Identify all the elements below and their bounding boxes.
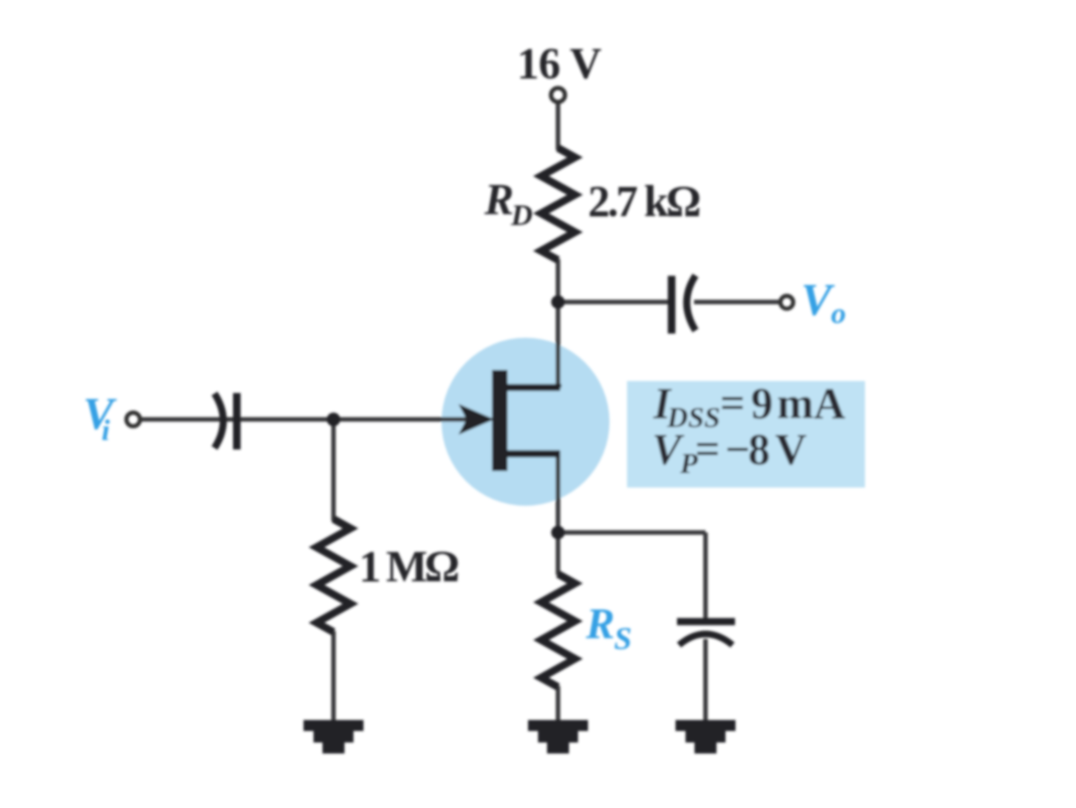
svg-text:9: 9 — [751, 379, 773, 428]
svg-text:V: V — [83, 388, 117, 439]
svg-text:R: R — [484, 175, 514, 224]
svg-text:2.7 kΩ: 2.7 kΩ — [588, 177, 700, 226]
svg-text:S: S — [614, 620, 632, 656]
svg-text:i: i — [102, 414, 111, 447]
svg-text:1 MΩ: 1 MΩ — [359, 542, 459, 591]
svg-text:V: V — [775, 425, 807, 474]
svg-text:o: o — [831, 297, 846, 330]
svg-text:−8: −8 — [725, 425, 769, 474]
svg-text:mA: mA — [777, 379, 846, 428]
svg-text:D: D — [510, 199, 533, 232]
svg-text:=: = — [695, 425, 720, 474]
svg-text:=: = — [720, 379, 745, 428]
svg-text:R: R — [585, 601, 615, 648]
svg-text:16 V: 16 V — [517, 39, 602, 88]
svg-text:V: V — [801, 274, 835, 325]
